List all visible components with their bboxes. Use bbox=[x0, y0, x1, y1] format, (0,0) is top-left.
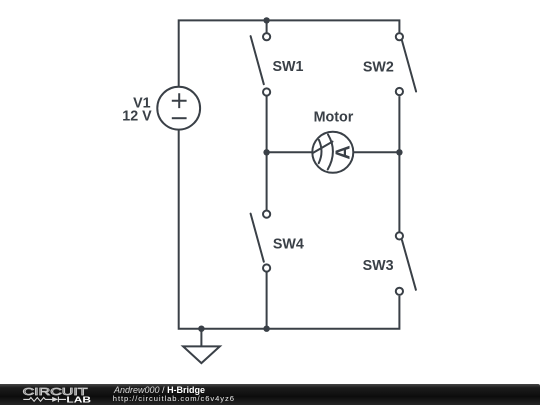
svg-text:SW3: SW3 bbox=[363, 258, 394, 274]
svg-text:A: A bbox=[332, 145, 354, 159]
svg-text:12 V: 12 V bbox=[122, 109, 152, 125]
svg-text:Motor: Motor bbox=[314, 110, 354, 126]
svg-text:SW1: SW1 bbox=[273, 59, 304, 75]
svg-text:SW4: SW4 bbox=[273, 237, 304, 253]
svg-text:LAB: LAB bbox=[66, 394, 91, 404]
svg-text:SW2: SW2 bbox=[363, 60, 394, 76]
